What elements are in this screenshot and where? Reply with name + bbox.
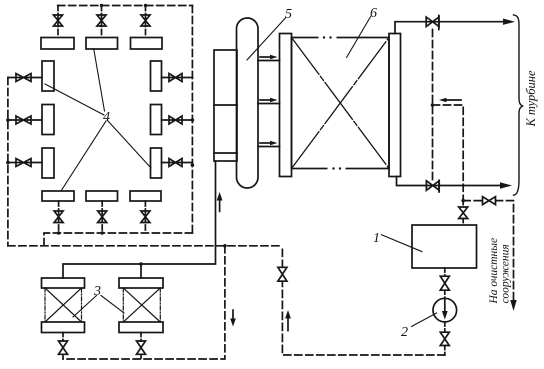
- vessel 5: chamber divider 1: [214, 104, 237, 106]
- heat exchanger 6: shell: [292, 38, 390, 169]
- valve L2: [16, 116, 31, 124]
- wire: stub right row1: [162, 77, 193, 79]
- wire: connector 5-6 middle: [258, 103, 280, 105]
- wire: top outlet pipe to turbine: [395, 22, 503, 34]
- valve filter 3a drain: [59, 341, 68, 354]
- arrow: top outlet: [503, 19, 515, 25]
- wire: bottom dashed return line: [282, 281, 444, 355]
- wire: solid feed pipe from filters to chamber: [63, 161, 216, 278]
- valve P2: [440, 332, 449, 345]
- svg-text:К турбине: К турбине: [524, 70, 538, 128]
- svg-text:6: 6: [370, 6, 377, 21]
- heat exchanger 6: right tube plate: [389, 34, 401, 177]
- wire: stub below pump: [444, 322, 446, 332]
- valve R1: [169, 74, 182, 82]
- label 1 leader: [382, 235, 422, 252]
- valve T1: [54, 15, 63, 26]
- mech filter 3a: top cap: [42, 278, 85, 288]
- valve B3: [141, 211, 150, 223]
- filter cell left-3: [42, 148, 54, 178]
- label 3 leader lines: [73, 296, 124, 318]
- wire: filter 3a drain stem: [62, 333, 64, 360]
- label 4 leader to right cell 3: [108, 121, 151, 168]
- arrow: connector lower flow: [260, 142, 271, 144]
- wire: stem of valve B1: [58, 201, 60, 233]
- valve filter 3b drain: [137, 341, 146, 354]
- svg-text:3: 3: [93, 284, 101, 299]
- wire: dashed bypass between check valves: [432, 30, 434, 181]
- label 4 leader to left cell 1: [45, 84, 104, 115]
- filter cell bottom-2: [86, 191, 118, 201]
- wire: filter 3b drain stem: [140, 333, 142, 360]
- wire: dashed drop to filters return: [63, 246, 225, 359]
- wire: bottom outlet pipe to turbine: [397, 177, 501, 186]
- wire: stem of valve T3: [145, 6, 147, 38]
- valve B1: [54, 211, 63, 223]
- arrow: drop flow down: [232, 310, 234, 319]
- heat exchanger 6: diagonal 2: [292, 38, 390, 169]
- filter cell bottom-1: [42, 191, 74, 201]
- svg-text:4: 4: [103, 110, 110, 125]
- filter cell top-2: [86, 38, 118, 50]
- valve T2: [97, 15, 106, 26]
- mech filter 3a: body: [45, 288, 82, 322]
- svg-text:2: 2: [401, 325, 408, 340]
- arrow: connector upper flow: [260, 56, 271, 58]
- valve P1: [440, 276, 449, 290]
- wire: stub right row2: [162, 119, 193, 121]
- mech filter 3b: top cap: [119, 278, 163, 288]
- wire: stub to bottom line: [444, 346, 446, 356]
- wire: stem of valve B2: [101, 201, 103, 233]
- wire: stem of valve T1: [57, 6, 59, 38]
- filter cell right-3: [151, 148, 162, 178]
- arrow: drain down: [510, 300, 516, 311]
- wire: tank outlet stub: [444, 268, 446, 276]
- wire: stub to pump: [444, 290, 446, 298]
- wire: dashed drain line to treatment: [463, 201, 513, 301]
- arrow: return riser flow up: [287, 318, 289, 331]
- node: junction on bypass: [431, 103, 435, 107]
- arrow: branch flow (left): [446, 99, 461, 101]
- node: junction above tank: [461, 199, 465, 203]
- label 5 leader: [247, 18, 286, 60]
- valve B2: [98, 211, 107, 223]
- wire: stem of tank inlet valve: [462, 201, 464, 225]
- arrow: feed flow up: [219, 200, 221, 211]
- heat exchanger 6: diagonal 1: [292, 38, 390, 169]
- wire: stub right row3: [162, 162, 193, 164]
- filter cell left-1: [42, 61, 54, 91]
- svg-text:1: 1: [373, 231, 380, 246]
- valve tank inlet: [459, 207, 468, 219]
- label 4 leader to top cell 2: [94, 49, 105, 111]
- node: junction filter2 riser: [139, 262, 143, 266]
- valve R2: [169, 116, 182, 124]
- svg-text:5: 5: [285, 7, 292, 22]
- wire: right dashed edge of backwash box: [191, 6, 193, 234]
- valve D1: [483, 197, 496, 205]
- wire: stub left row3: [8, 162, 42, 164]
- wire: stub left row2: [8, 119, 42, 121]
- mech filter 3a: bottom cap: [42, 322, 85, 333]
- wire: inner bottom dashed collector: [44, 233, 192, 246]
- valve L1: [16, 74, 31, 82]
- check valve CV2: [426, 181, 439, 191]
- wire: outer bottom dashed line to junction: [8, 245, 282, 247]
- label 6 leader: [347, 17, 371, 58]
- wire: left dashed edge of backwash box: [7, 78, 9, 246]
- filter cell bottom-3: [130, 191, 161, 201]
- filter cell top-1: [41, 38, 74, 50]
- heat exchanger 6: left tube plate: [280, 34, 292, 177]
- wire: connector 5-6 lower: [258, 146, 280, 148]
- node: junction dots in backwash box: [6, 4, 194, 235]
- wire: return riser top: [281, 246, 283, 267]
- filter cell right-1: [151, 61, 162, 91]
- valve T3: [141, 15, 150, 26]
- check valve CV1: [426, 17, 439, 27]
- valve on return riser: [278, 267, 287, 281]
- vessel 5: capsule body: [237, 18, 259, 188]
- arrow: connector middle flow: [260, 99, 271, 101]
- brace: к турбине group: [514, 15, 523, 195]
- wire: dashed branch to condensate junction: [433, 105, 464, 201]
- filter cell left-2: [42, 105, 54, 135]
- svg-text:На очистныесооружения: На очистныесооружения: [488, 238, 512, 305]
- pump 2: [433, 298, 457, 322]
- vessel 5: chamber divider 2: [214, 152, 237, 154]
- label 2 leader: [412, 313, 437, 327]
- arrow: bottom outlet: [500, 182, 512, 188]
- wire: connector 5-6 upper: [258, 60, 280, 62]
- node: junction on outer bottom line: [223, 244, 227, 248]
- mech filter 3b: body: [123, 288, 160, 322]
- valve R3: [169, 159, 182, 167]
- valve L3: [16, 159, 31, 167]
- filter cell right-2: [151, 105, 162, 135]
- wire: stub left row1: [8, 77, 42, 79]
- wire: stem of valve B3: [144, 201, 146, 233]
- mech filter 3b: bottom cap: [119, 322, 163, 333]
- tank 1: [412, 225, 477, 268]
- vessel 5: distribution chamber rect: [214, 50, 237, 161]
- wire: stem of valve T2: [101, 6, 103, 38]
- filter cell top-3: [131, 38, 163, 50]
- wire: top dashed header line of backwash box: [58, 5, 193, 7]
- label 4 leader to bottom cell 1: [61, 121, 106, 191]
